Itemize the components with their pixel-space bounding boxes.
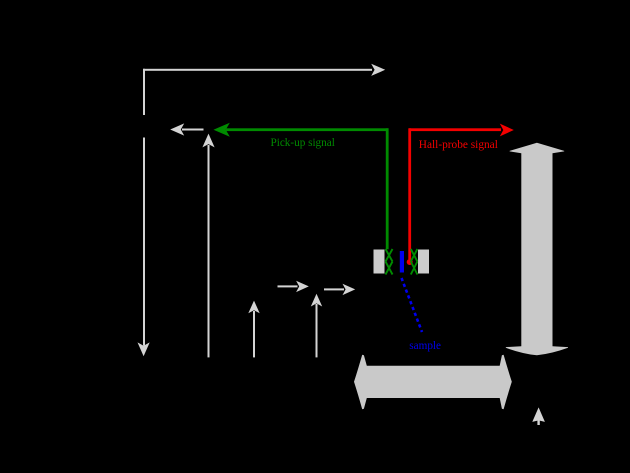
svg-text:Pick-up signal: Pick-up signal: [271, 137, 335, 149]
wire: top feedback line with right arrowhead: [143, 64, 385, 76]
sample (blue bar): [400, 251, 404, 273]
wire: small up arrow at x=254: [248, 301, 259, 358]
coil winding right (green X's): [411, 249, 418, 275]
wire: short left arrow: [170, 123, 203, 135]
wire: hall-probe signal red path (vertical from probe, horizontal, right arrowhead): [407, 124, 514, 265]
wire: left vertical line lower segment with down arrowhead: [138, 138, 150, 357]
block arrow: horizontal double-headed (translation stage): [354, 355, 512, 410]
leader line to sample label (blue dashed): [402, 278, 423, 332]
wire: small up arrow bottom-right: [532, 407, 545, 425]
wire: left vertical line upper segment: [143, 69, 145, 115]
wire: pick-up signal green path (left arrowhead, horizontal, vertical down to coil): [214, 123, 389, 250]
svg-text:sample: sample: [409, 340, 441, 352]
coil former right (gray block): [418, 250, 429, 274]
wire: small up arrow at x=316: [311, 294, 322, 358]
wire: long up arrow at x=208: [202, 134, 214, 358]
coil former left (gray block): [374, 250, 385, 274]
svg-text:Hall-probe signal: Hall-probe signal: [419, 139, 498, 151]
block arrow: vertical double-headed (magnet field): [506, 143, 568, 355]
wire: small right arrow 2: [324, 284, 355, 295]
coil winding left (green X's): [386, 249, 393, 275]
wire: small right arrow 1: [278, 281, 309, 292]
